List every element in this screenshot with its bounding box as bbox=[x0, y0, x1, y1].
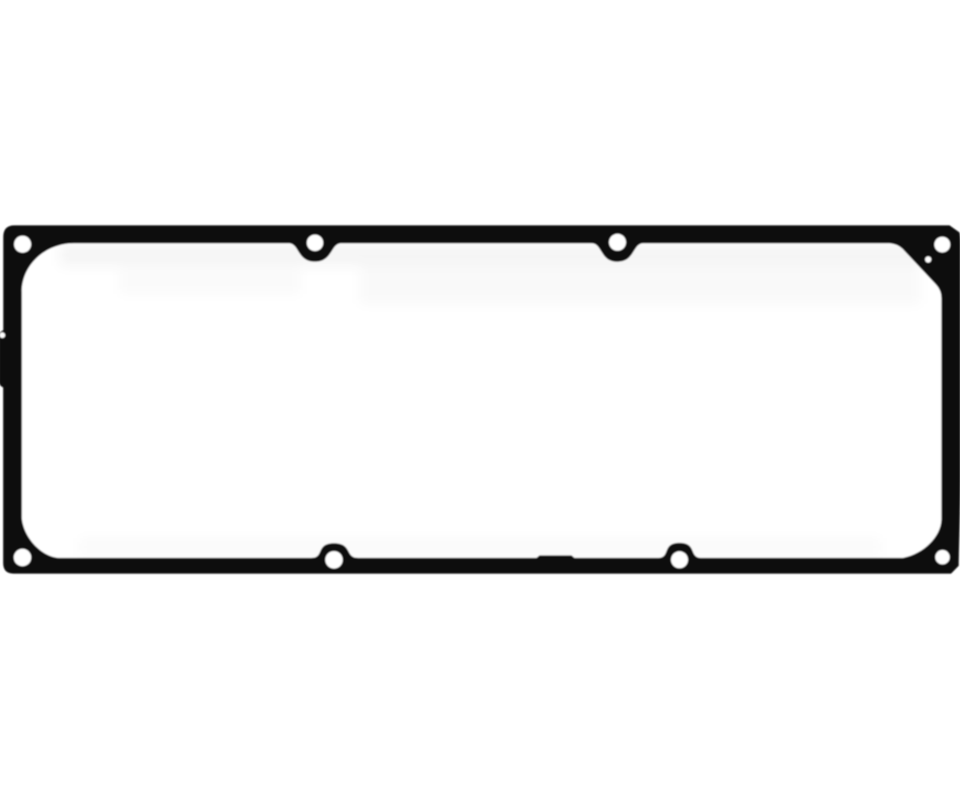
faint photo mottling below top band bbox=[60, 244, 920, 556]
bolt hole top-right bbox=[934, 237, 950, 253]
bolt hole top-left bbox=[14, 236, 31, 253]
bolt hole bottom-left bbox=[14, 549, 31, 566]
notch on left tab bbox=[0, 332, 5, 338]
gasket outer body bbox=[0, 225, 960, 573]
bolt hole top-mid-right bbox=[609, 234, 626, 251]
bolt hole bottom-mid-right bbox=[671, 551, 688, 568]
bolt hole bottom-right bbox=[935, 550, 949, 564]
bolt hole top-mid-left bbox=[307, 235, 323, 251]
bolt hole bottom-mid-left bbox=[325, 551, 342, 568]
tiny locating hole top-right bbox=[925, 256, 931, 262]
inner cutout (white window) bbox=[22, 243, 942, 558]
